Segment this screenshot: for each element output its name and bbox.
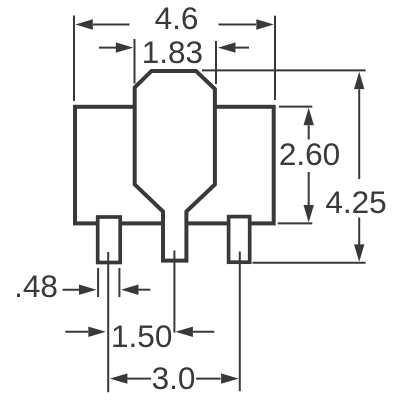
svg-text:4.6: 4.6 [155, 0, 199, 36]
svg-text:3.0: 3.0 [152, 360, 196, 396]
svg-text:4.25: 4.25 [325, 184, 386, 220]
svg-text:1.83: 1.83 [142, 34, 203, 70]
svg-text:2.60: 2.60 [279, 136, 340, 172]
svg-text:1.50: 1.50 [111, 318, 172, 354]
svg-text:.48: .48 [14, 268, 58, 304]
